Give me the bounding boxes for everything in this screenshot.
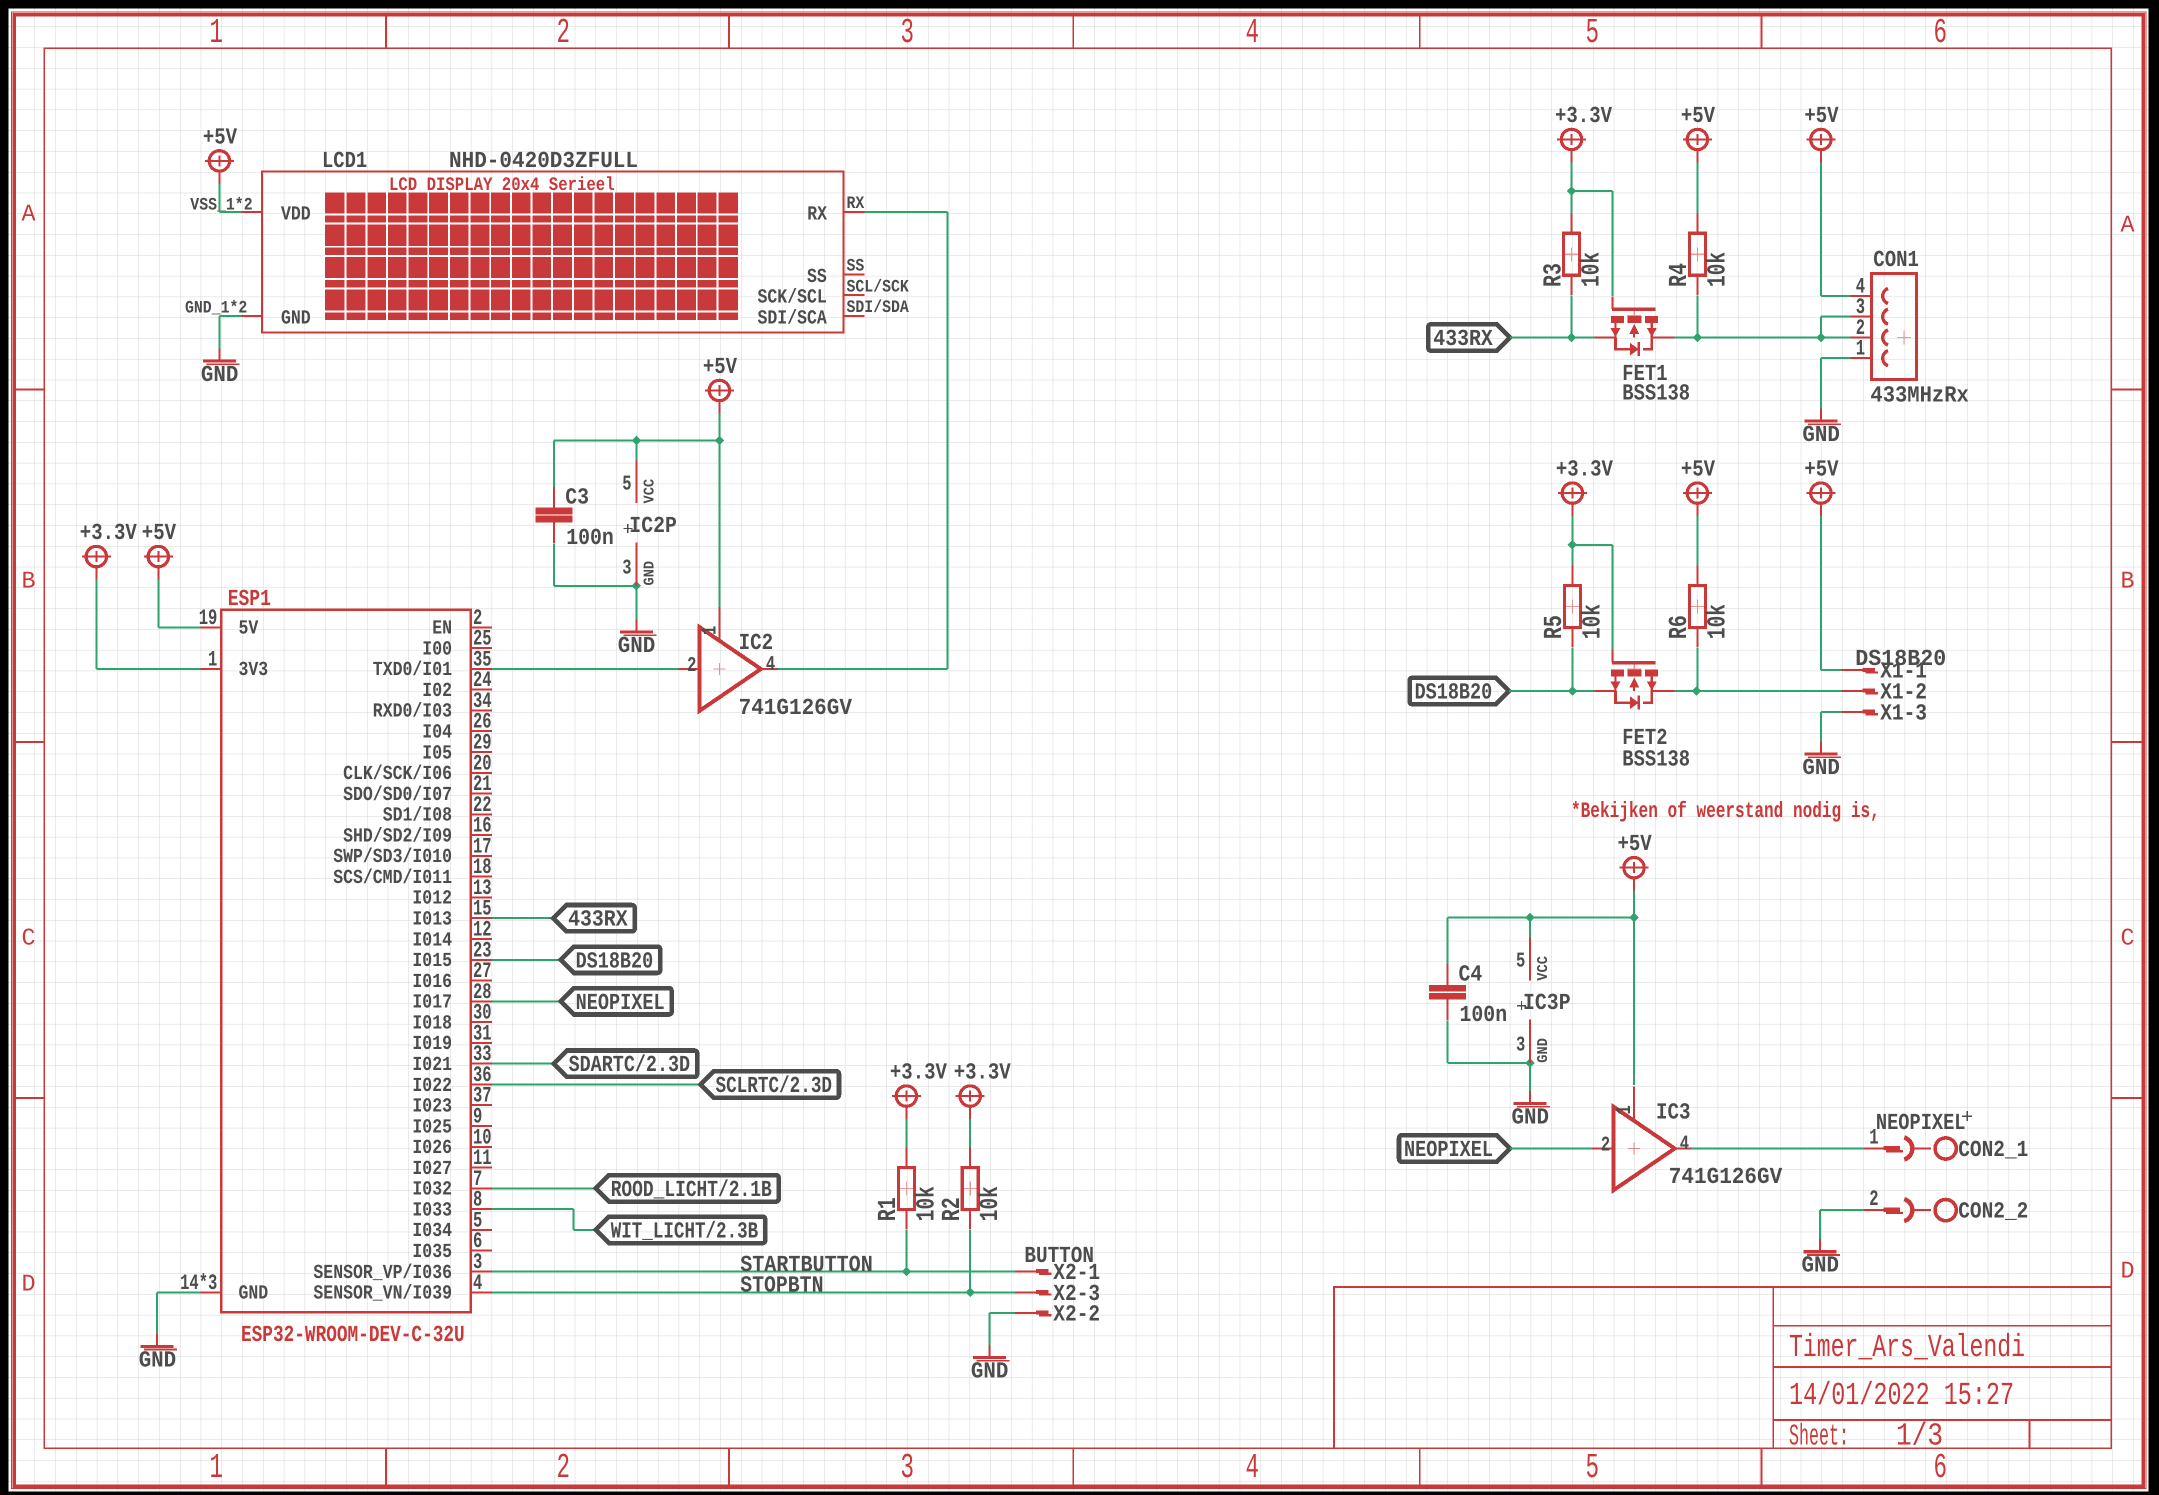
ground xyxy=(201,349,240,389)
svg-text:741G126GV: 741G126GV xyxy=(739,695,853,721)
supply +5V xyxy=(1804,103,1838,163)
svg-text:I032: I032 xyxy=(412,1179,452,1202)
svg-text:3: 3 xyxy=(1516,1035,1525,1058)
supply +5V xyxy=(703,354,737,414)
supply +3.3V xyxy=(1556,457,1613,516)
svg-text:I027: I027 xyxy=(412,1158,452,1181)
ESP1 pin 33 I021 xyxy=(412,1042,491,1077)
svg-text:GND: GND xyxy=(1535,1038,1552,1063)
wire +5V to ESP 5V pin xyxy=(158,580,200,628)
wire I032 to ROOD_LICHT flag xyxy=(492,1187,596,1189)
svg-text:+3.3V: +3.3V xyxy=(1556,457,1613,483)
frame column numbers top xyxy=(210,13,1948,53)
wire +5V down to IC2 pin1 xyxy=(718,441,720,608)
svg-text:B: B xyxy=(22,569,36,596)
frame row ticks left xyxy=(14,390,44,1099)
LCD pin GND xyxy=(241,308,310,331)
svg-text:GND: GND xyxy=(1802,1253,1840,1279)
ESP1 pin 5 I034 xyxy=(412,1208,491,1243)
svg-text:3: 3 xyxy=(901,13,915,53)
svg-text:SENSOR_VN/I039: SENSOR_VN/I039 xyxy=(313,1283,452,1306)
ESP1 pin 24 I02 xyxy=(422,668,491,703)
net flag SCLRTC/2.3D xyxy=(701,1071,840,1097)
svg-text:100n: 100n xyxy=(1460,1002,1508,1028)
wire FET1 drain to CON1 pin 2 xyxy=(1675,337,1851,339)
wire R4 bottom to 433RX-5V net xyxy=(1696,295,1698,337)
wire +5V rail to IC3 xyxy=(1448,891,1635,964)
ESP1 pin 16 SHD/SD2/I09 xyxy=(343,814,492,849)
wire TXD0/I01 to IC2 input xyxy=(492,668,679,670)
ground xyxy=(1802,1239,1841,1279)
capacitor C3 xyxy=(536,484,614,551)
wire CON1 pin 3 to data net xyxy=(1821,317,1851,338)
svg-text:R3: R3 xyxy=(1538,263,1568,287)
svg-text:100n: 100n xyxy=(566,525,614,551)
svg-text:I025: I025 xyxy=(412,1116,452,1139)
svg-text:I016: I016 xyxy=(412,971,452,994)
CON1 pin 1 xyxy=(1851,337,1872,362)
svg-text:5: 5 xyxy=(622,474,631,497)
svg-text:4: 4 xyxy=(1680,1134,1689,1157)
title block xyxy=(1334,1287,2111,1448)
svg-text:GND: GND xyxy=(1512,1105,1550,1131)
junction R3 433RX xyxy=(1567,333,1577,343)
svg-text:I026: I026 xyxy=(412,1137,452,1160)
junction CON1 data xyxy=(1816,333,1826,343)
junction at IC3P GND xyxy=(1525,1058,1535,1068)
svg-text:1: 1 xyxy=(1869,1126,1878,1151)
ESP1 pin 30 I018 xyxy=(412,1001,491,1036)
ESP1 pin 19 5V xyxy=(199,606,259,641)
svg-text:433MHzRx: 433MHzRx xyxy=(1870,383,1969,409)
svg-text:2: 2 xyxy=(687,655,696,678)
wire R6 bottom to net xyxy=(1696,648,1698,691)
svg-text:I013: I013 xyxy=(412,909,452,932)
svg-text:CON2_1: CON2_1 xyxy=(1958,1137,2028,1163)
svg-text:R4: R4 xyxy=(1664,263,1694,287)
ESP1 pin 12 I014 xyxy=(412,918,491,953)
svg-text:D: D xyxy=(22,1272,36,1299)
svg-text:SDI/SDA: SDI/SDA xyxy=(847,298,910,318)
wire I033 to WIT_LICHT flag xyxy=(492,1209,596,1230)
svg-text:I00: I00 xyxy=(422,638,452,661)
wire DS18B20 flag to FET2 source xyxy=(1509,690,1594,692)
frame column ticks bottom xyxy=(386,1448,1762,1486)
ESP1 pin 21 SDO/SD0/I07 xyxy=(343,772,492,807)
svg-text:C: C xyxy=(2121,926,2135,953)
svg-text:Sheet:: Sheet: xyxy=(1789,1421,1849,1455)
ESP1 pin 37 I023 xyxy=(412,1084,491,1119)
LCD pin SS xyxy=(807,257,864,289)
supply +3.3V xyxy=(1555,103,1612,163)
svg-text:SDARTC/2.3D: SDARTC/2.3D xyxy=(569,1052,691,1078)
junction R5 DS18B20 xyxy=(1568,686,1578,696)
svg-text:SS: SS xyxy=(847,257,865,277)
junction at +5V drop IC3 xyxy=(1629,913,1639,923)
svg-text:GND: GND xyxy=(641,561,658,586)
svg-text:SENSOR_VP/I036: SENSOR_VP/I036 xyxy=(313,1262,452,1285)
wire FET2 drain to X1-2 xyxy=(1675,690,1842,692)
junction at IC2P VCC xyxy=(632,436,642,446)
svg-text:GND: GND xyxy=(139,1347,177,1373)
power pins IC2P xyxy=(622,460,677,586)
svg-text:SCS/CMD/I011: SCS/CMD/I011 xyxy=(333,867,452,890)
transistor FET1 BSS138 xyxy=(1595,297,1691,407)
svg-text:19: 19 xyxy=(199,606,218,631)
svg-text:GND: GND xyxy=(1802,422,1840,448)
ESP1 pin 9 I025 xyxy=(412,1105,491,1140)
wire +3.3V to R2 xyxy=(969,1119,971,1148)
pin X1-1 xyxy=(1842,659,1927,685)
svg-text:I034: I034 xyxy=(412,1220,452,1243)
svg-text:741G126GV: 741G126GV xyxy=(1669,1164,1783,1190)
wire +5V down to IC3 pin1 xyxy=(1633,918,1635,1085)
svg-text:IC2: IC2 xyxy=(739,630,774,656)
pin CON2_1 xyxy=(1864,1126,2028,1164)
pin X1-3 xyxy=(1842,700,1927,726)
svg-text:6: 6 xyxy=(1934,13,1948,53)
ground xyxy=(139,1334,178,1374)
svg-text:X1-3: X1-3 xyxy=(1880,700,1927,726)
svg-text:10k: 10k xyxy=(1702,604,1732,639)
frame row letters right xyxy=(2121,213,2136,1286)
svg-text:BSS138: BSS138 xyxy=(1622,381,1690,407)
svg-text:C4: C4 xyxy=(1459,962,1483,988)
ESP1 pin 27 I016 xyxy=(412,959,491,994)
svg-text:I02: I02 xyxy=(422,680,452,703)
wire CON2_2 to ground xyxy=(1820,1210,1864,1239)
svg-text:I033: I033 xyxy=(412,1199,452,1222)
svg-text:VCC: VCC xyxy=(641,479,658,504)
transistor FET2 BSS138 xyxy=(1595,650,1691,773)
wire +5V to LCD VDD xyxy=(219,184,241,212)
svg-text:SWP/SD3/I010: SWP/SD3/I010 xyxy=(333,846,452,869)
svg-text:A: A xyxy=(2121,213,2136,240)
svg-text:I019: I019 xyxy=(412,1033,452,1056)
svg-text:+3.3V: +3.3V xyxy=(890,1060,947,1086)
pin X2-1 xyxy=(1015,1260,1100,1286)
net flag 433RX at ESP xyxy=(553,905,635,931)
svg-text:GND: GND xyxy=(281,308,311,331)
svg-text:CLK/SCK/I06: CLK/SCK/I06 xyxy=(343,763,452,786)
svg-text:1: 1 xyxy=(1614,1105,1637,1114)
resistor R4 xyxy=(1664,213,1732,294)
svg-text:10k: 10k xyxy=(1577,252,1607,287)
ESP1 pin 8 I033 xyxy=(412,1188,491,1223)
net flag ROOD_LICHT/2.1B xyxy=(596,1175,779,1201)
pin X1-2 xyxy=(1842,680,1927,706)
svg-text:SD1/I08: SD1/I08 xyxy=(383,805,452,828)
svg-text:ESP32-WROOM-DEV-C-32U: ESP32-WROOM-DEV-C-32U xyxy=(241,1322,465,1348)
net flag DS18B20 at ESP xyxy=(561,947,661,973)
svg-text:2: 2 xyxy=(557,13,571,53)
svg-text:SCL/SCK: SCL/SCK xyxy=(847,277,910,297)
svg-text:4: 4 xyxy=(473,1271,482,1296)
svg-text:I012: I012 xyxy=(412,888,452,911)
svg-text:IC3P: IC3P xyxy=(1523,990,1571,1016)
LCD pin VDD xyxy=(241,203,310,226)
resistor R5 xyxy=(1539,566,1607,647)
ESP1 pin 11 I027 xyxy=(412,1146,491,1181)
ESP1 pin 20 CLK/SCK/I06 xyxy=(343,751,492,786)
LCD display LCD1 NHD-0420D3ZFULL outline xyxy=(262,171,843,332)
svg-text:C: C xyxy=(22,926,36,953)
resistor R2 xyxy=(937,1148,1005,1229)
svg-text:GND: GND xyxy=(201,362,239,388)
frame row ticks right xyxy=(2111,390,2144,1099)
svg-text:+5V: +5V xyxy=(203,124,237,150)
wire +3.3V to ESP 3V3 pin xyxy=(96,580,200,669)
buffer IC2 741G126GV xyxy=(678,607,852,721)
svg-text:4: 4 xyxy=(1246,1448,1260,1488)
svg-text:1: 1 xyxy=(210,13,224,53)
junction R2 STOPBTN xyxy=(965,1287,975,1297)
ESP1 pin 31 I019 xyxy=(412,1021,491,1056)
junction R6 net xyxy=(1692,686,1702,696)
wire I013 to 433RX flag xyxy=(492,917,553,919)
pin X2-3 xyxy=(1015,1281,1100,1307)
pin CON2_2 xyxy=(1864,1187,2028,1225)
svg-text:433RX: 433RX xyxy=(568,907,628,933)
junction R1 STARTBUTTON xyxy=(902,1267,912,1277)
microcontroller ESP1 ESP32-WROOM-DEV-C-32U outline xyxy=(221,610,471,1313)
net flag NEOPIXEL at IC3 xyxy=(1399,1135,1510,1161)
wire CON1 pin 1 to ground xyxy=(1821,358,1851,408)
junction +3.3V R5 gate xyxy=(1568,540,1578,550)
wire +5V to R6 xyxy=(1696,516,1698,566)
svg-text:10k: 10k xyxy=(975,1186,1005,1221)
svg-text:10k: 10k xyxy=(1702,252,1732,287)
svg-text:1: 1 xyxy=(1856,337,1865,362)
svg-text:VDD: VDD xyxy=(281,203,311,226)
svg-text:SS: SS xyxy=(807,266,827,289)
CON1 pin 4 xyxy=(1851,275,1872,300)
CON1 pin 2 xyxy=(1851,316,1872,341)
svg-text:I018: I018 xyxy=(412,1012,452,1035)
svg-text:+3.3V: +3.3V xyxy=(1555,103,1612,129)
svg-text:Timer_Ars_Valendi: Timer_Ars_Valendi xyxy=(1789,1329,2025,1366)
svg-text:*Bekijken of weerstand nodig i: *Bekijken of weerstand nodig is, xyxy=(1571,799,1880,824)
junction +3.3V R3 gate xyxy=(1567,186,1577,196)
wire R1 to STARTBUTTON net xyxy=(905,1230,907,1272)
wire ESP GND pin to ground xyxy=(157,1292,200,1334)
LCD pin SCK/SCL xyxy=(758,277,910,309)
svg-text:STOPBTN: STOPBTN xyxy=(740,1273,823,1299)
ESP1 pin 35 TXD0/I01 xyxy=(373,647,492,682)
wire I017 to NEOPIXEL flag xyxy=(492,1000,561,1002)
svg-text:NEOPIXEL: NEOPIXEL xyxy=(576,990,665,1016)
wire I022 to SCLRTC flag xyxy=(492,1083,701,1085)
svg-text:2: 2 xyxy=(1869,1187,1878,1212)
net flag 433RX at FET1 xyxy=(1428,324,1510,350)
svg-text:I035: I035 xyxy=(412,1241,452,1264)
supply +3.3V xyxy=(80,520,137,580)
svg-text:R2: R2 xyxy=(937,1197,967,1221)
ground xyxy=(1512,1091,1551,1131)
pin X2-2 xyxy=(1015,1302,1100,1328)
svg-text:ROOD_LICHT/2.1B: ROOD_LICHT/2.1B xyxy=(611,1177,772,1203)
wire I015 to DS18B20 flag xyxy=(492,959,561,961)
svg-text:1: 1 xyxy=(699,626,722,635)
svg-text:I022: I022 xyxy=(412,1075,452,1098)
svg-text:3V3: 3V3 xyxy=(239,659,269,682)
ESP1 pin 6 I035 xyxy=(412,1229,491,1264)
svg-text:CON1: CON1 xyxy=(1873,247,1919,273)
ESP1 pin 34 RXD0/I03 xyxy=(373,689,492,724)
wire C3 bottom to GND rail xyxy=(554,544,636,620)
svg-text:SDI/SCA: SDI/SCA xyxy=(758,308,827,331)
ESP1 pin 3 SENSOR_VP/I036 xyxy=(313,1250,491,1285)
svg-text:+5V: +5V xyxy=(703,354,737,380)
ESP1 pin 1 3V3 xyxy=(201,647,269,682)
LCD pin RX xyxy=(807,194,865,226)
ESP1 pin 13 I012 xyxy=(412,876,491,911)
ESP1 pin 10 I026 xyxy=(412,1125,491,1160)
wire X2-2 to ground xyxy=(989,1313,1014,1345)
svg-text:RX: RX xyxy=(807,203,827,226)
svg-text:A: A xyxy=(22,202,37,229)
wire R2 to STOPBTN net xyxy=(969,1230,971,1293)
wire SENSOR_VN STOPBTN net to X2-3 xyxy=(492,1291,1015,1293)
svg-text:SCK/SCL: SCK/SCL xyxy=(758,287,827,310)
power pins IC3P xyxy=(1516,938,1571,1064)
ESP1 pin 29 I05 xyxy=(422,730,491,765)
svg-text:10k: 10k xyxy=(1577,604,1607,639)
supply +3.3V xyxy=(954,1060,1011,1120)
svg-text:I015: I015 xyxy=(412,950,452,973)
connector CON1 433MHzRx outline xyxy=(1872,274,1917,380)
svg-text:3: 3 xyxy=(622,558,631,581)
svg-text:I05: I05 xyxy=(422,742,452,765)
wire R3 bottom to 433RX net xyxy=(1571,295,1573,337)
junction at +5V drop xyxy=(715,436,725,446)
svg-text:14/01/2022 15:27: 14/01/2022 15:27 xyxy=(1789,1377,2014,1414)
supply +5V xyxy=(1681,457,1715,516)
svg-text:NEOPIXEL: NEOPIXEL xyxy=(1876,1110,1966,1136)
wire C4 bottom to GND rail xyxy=(1448,1021,1531,1091)
junction R4 net xyxy=(1693,333,1703,343)
ground xyxy=(971,1345,1010,1385)
net flag SDARTC/2.3D xyxy=(554,1050,698,1076)
junction at IC2P GND xyxy=(632,581,642,591)
svg-text:1: 1 xyxy=(210,1448,224,1488)
junction at IC3P VCC xyxy=(1525,913,1535,923)
connector CON2_1 name NEOPIXEL xyxy=(1876,1110,1972,1136)
wire +5V to CON1 pin 4 xyxy=(1821,163,1851,297)
wire +5V to R4 xyxy=(1696,163,1698,214)
wire LCD GND to ground xyxy=(219,316,241,348)
svg-text:5: 5 xyxy=(1586,1448,1600,1488)
svg-text:LCD1: LCD1 xyxy=(322,148,367,174)
ESP1 pin 36 I022 xyxy=(412,1063,491,1098)
svg-text:ESP1: ESP1 xyxy=(228,586,271,612)
wire 433RX flag to FET1 source xyxy=(1510,337,1595,339)
wire +3.3V to R5 and FET2 gate xyxy=(1572,516,1612,650)
LCD pixel matrix xyxy=(325,193,738,320)
net flag WIT_LICHT/2.3B xyxy=(596,1217,766,1243)
wire +5V rail to IC2 xyxy=(554,414,719,487)
svg-text:CON2_2: CON2_2 xyxy=(1958,1199,2028,1225)
svg-text:IC2P: IC2P xyxy=(629,513,677,539)
resistor R6 xyxy=(1664,566,1732,647)
ESP1 pin 4 SENSOR_VN/I039 xyxy=(313,1271,491,1306)
supply +3.3V xyxy=(890,1060,947,1120)
supply +5V xyxy=(203,124,237,184)
svg-text:GND: GND xyxy=(618,633,656,659)
wire +5V to X1-1 xyxy=(1821,516,1842,670)
svg-text:5: 5 xyxy=(1586,13,1600,53)
supply +5V xyxy=(1681,103,1715,163)
svg-text:SCLRTC/2.3D: SCLRTC/2.3D xyxy=(716,1073,833,1099)
wire SENSOR_VP STARTBUTTON net to X2-1 xyxy=(492,1270,1015,1272)
svg-text:GND: GND xyxy=(971,1359,1009,1385)
supply +5V xyxy=(1618,831,1652,891)
svg-text:I023: I023 xyxy=(412,1096,452,1119)
svg-text:SDO/SD0/I07: SDO/SD0/I07 xyxy=(343,784,452,807)
svg-text:TXD0/I01: TXD0/I01 xyxy=(373,659,452,682)
svg-text:NEOPIXEL: NEOPIXEL xyxy=(1404,1137,1493,1163)
frame column numbers bottom xyxy=(210,1448,1948,1488)
svg-text:WIT_LICHT/2.3B: WIT_LICHT/2.3B xyxy=(611,1218,759,1244)
CON1 pin 3 xyxy=(1851,295,1872,320)
svg-text:R6: R6 xyxy=(1664,615,1694,639)
ESP1 pin 26 I04 xyxy=(422,710,491,745)
resistor R3 xyxy=(1538,213,1606,294)
svg-text:SHD/SD2/I09: SHD/SD2/I09 xyxy=(343,825,452,848)
ESP1 pin 7 I032 xyxy=(412,1167,491,1202)
ESP1 pin 28 I017 xyxy=(412,980,491,1015)
svg-text:1: 1 xyxy=(208,647,217,672)
svg-text:+5V: +5V xyxy=(1804,103,1838,129)
svg-text:I021: I021 xyxy=(412,1054,452,1077)
buffer IC3 741G126GV xyxy=(1592,1087,1782,1191)
svg-text:2: 2 xyxy=(557,1448,571,1488)
svg-text:IC3: IC3 xyxy=(1656,1100,1691,1126)
resistor R1 xyxy=(873,1148,941,1229)
ESP1 pin 23 I015 xyxy=(412,938,491,973)
ESP1 pin 14*3 GND xyxy=(180,1271,268,1306)
svg-text:X2-2: X2-2 xyxy=(1053,1302,1100,1328)
svg-text:EN: EN xyxy=(432,618,452,641)
svg-text:+3.3V: +3.3V xyxy=(80,520,137,546)
wire R5 bottom to DS18B20 net xyxy=(1571,648,1573,691)
svg-text:C3: C3 xyxy=(565,484,589,510)
ESP1 pin 25 I00 xyxy=(422,627,491,662)
svg-text:VCC: VCC xyxy=(1535,956,1552,981)
svg-text:DS18B20: DS18B20 xyxy=(1415,680,1493,706)
svg-text:DS18B20: DS18B20 xyxy=(576,948,654,974)
svg-text:+5V: +5V xyxy=(1681,103,1715,129)
svg-text:+5V: +5V xyxy=(1804,457,1838,483)
ground xyxy=(618,620,657,660)
svg-text:5: 5 xyxy=(1516,951,1525,974)
wire NEOPIXEL flag to IC3 input xyxy=(1510,1148,1592,1150)
svg-text:I04: I04 xyxy=(422,722,452,745)
svg-text:+3.3V: +3.3V xyxy=(954,1060,1011,1086)
svg-text:+5V: +5V xyxy=(1681,457,1715,483)
svg-text:+5V: +5V xyxy=(1618,831,1652,857)
wire +3.3V to R3 and FET1 gate xyxy=(1572,163,1613,297)
net flag NEOPIXEL at ESP xyxy=(561,988,672,1014)
frame row letters left xyxy=(22,202,37,1299)
svg-text:5V: 5V xyxy=(239,618,259,641)
svg-text:B: B xyxy=(2121,569,2135,596)
net flag DS18B20 at FET2 xyxy=(1410,678,1510,704)
ground xyxy=(1802,409,1841,449)
svg-text:2: 2 xyxy=(1601,1135,1610,1158)
svg-text:NHD-0420D3ZFULL: NHD-0420D3ZFULL xyxy=(449,148,638,174)
svg-text:4: 4 xyxy=(1246,13,1260,53)
